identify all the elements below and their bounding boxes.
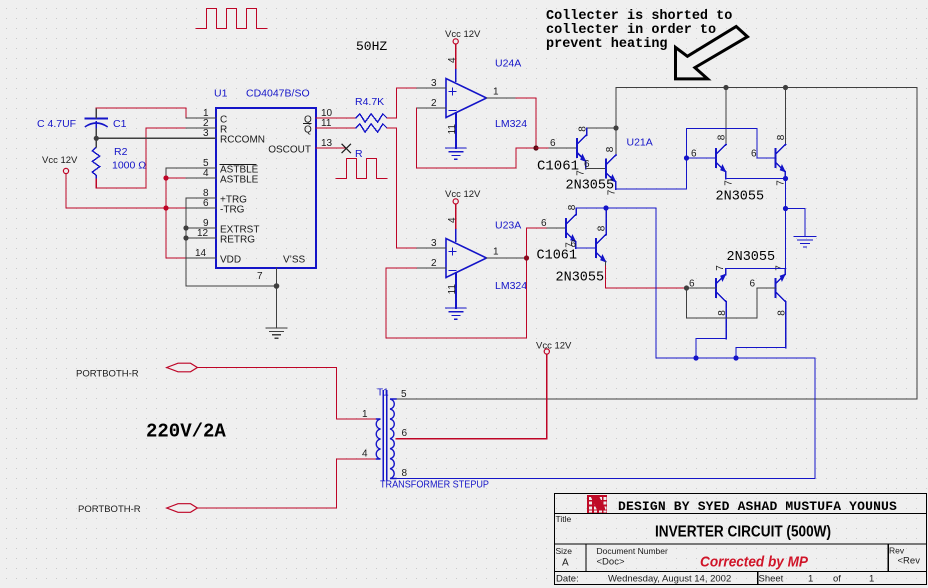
- svg-text:DESIGN BY SYED ASHAD MUSTUFA Y: DESIGN BY SYED ASHAD MUSTUFA YOUNUS: [618, 499, 897, 514]
- wire Q5/Q6 collectors: [576, 207, 656, 209]
- svg-text:2N3055: 2N3055: [716, 190, 765, 205]
- svg-text:6: 6: [402, 428, 408, 439]
- transistor Q1 (C1061): [577, 128, 587, 169]
- svg-text:4: 4: [447, 57, 458, 63]
- transformer primary winding: [376, 419, 380, 459]
- transistor Q3 (2N3055): [716, 145, 726, 179]
- svg-text:6: 6: [541, 218, 547, 229]
- wire Q3/Q4 emitters: [726, 178, 786, 180]
- svg-text:8: 8: [605, 146, 616, 152]
- svg-text:1: 1: [493, 87, 499, 98]
- wire Q7/Q8 emitters: [726, 268, 786, 270]
- title block frame: [555, 494, 927, 585]
- svg-text:A: A: [562, 558, 569, 569]
- OSCOUT waveform annotation: [336, 159, 387, 179]
- wire Q1 collector: [587, 127, 617, 129]
- junction pin9: [183, 225, 188, 230]
- ground symbol under IC: [266, 286, 287, 338]
- junction pin6 net: [163, 205, 168, 210]
- wire pin10 to resistor: [316, 117, 356, 119]
- svg-text:1000 Ω: 1000 Ω: [112, 160, 146, 172]
- svg-text:Document Number: Document Number: [597, 546, 669, 556]
- svg-text:Vcc 12V: Vcc 12V: [445, 29, 481, 40]
- wire port to transformer pin 1: [197, 368, 376, 420]
- svg-text:Vcc 12V: Vcc 12V: [445, 189, 481, 200]
- svg-text:Date:: Date:: [556, 574, 579, 585]
- svg-text:6: 6: [750, 279, 756, 290]
- junction Q8 collector bus: [733, 355, 738, 360]
- capacitor C1: [86, 118, 108, 129]
- junction emitters: [783, 176, 788, 181]
- transistor Q2 (2N3055): [606, 155, 616, 189]
- U23A pin stubs: [417, 248, 527, 268]
- wire Q7 collector to bus: [696, 339, 726, 359]
- svg-text:PORTBOTH-R: PORTBOTH-R: [76, 369, 139, 380]
- wire to ground symbol: [786, 208, 806, 210]
- wire collector bus down: [655, 208, 657, 358]
- wire Q5 emitter to Q6 base: [576, 247, 597, 249]
- svg-text:U24A: U24A: [495, 58, 521, 70]
- svg-text:Collecter is shorted to: Collecter is shorted to: [546, 9, 732, 24]
- svg-text:U21A: U21A: [627, 137, 653, 149]
- wire loop base node to Q4 base: [687, 129, 776, 159]
- wire Vcc to pin4: [455, 44, 457, 69]
- wire Q6 emitter to Q7 base node: [606, 266, 687, 288]
- no-connect X on OSCOUT: [342, 144, 351, 153]
- wire pin4 stub: [166, 177, 186, 179]
- wire rail to Q3 collector: [725, 88, 727, 145]
- logo (red crosshatch): [587, 495, 607, 513]
- svg-text:Rev: Rev: [889, 546, 905, 556]
- svg-text:Wednesday, August 14, 2002: Wednesday, August 14, 2002: [608, 574, 731, 585]
- resistor R4.7K lower (R): [356, 124, 387, 132]
- ground symbol under U23A: [446, 308, 466, 319]
- svg-text:T1: T1: [377, 388, 389, 399]
- wire collector bus to transformer pin 8: [396, 358, 815, 479]
- wire resistor to U24A pin3: [387, 88, 417, 118]
- svg-text:3: 3: [431, 78, 437, 89]
- wire R2 bottom loop to IC pin2: [96, 128, 186, 188]
- svg-text:8: 8: [567, 204, 578, 210]
- svg-text:8: 8: [578, 126, 589, 132]
- svg-text:V’SS: V’SS: [283, 255, 306, 266]
- wire Vcc to transformer pin 6: [396, 354, 547, 439]
- svg-text:prevent heating: prevent heating: [546, 37, 668, 52]
- svg-text:12: 12: [197, 228, 209, 239]
- wire resistor to U23A pin3: [387, 128, 417, 248]
- transistor Q7 (2N3055, flipped): [716, 269, 726, 339]
- resistor R2: [92, 147, 99, 179]
- svg-text:R2: R2: [114, 146, 128, 158]
- svg-text:8: 8: [717, 310, 728, 316]
- svg-text:8: 8: [776, 134, 787, 140]
- svg-text:220V/2A: 220V/2A: [146, 421, 226, 443]
- svg-text:C1: C1: [113, 118, 127, 130]
- svg-text:11: 11: [447, 124, 458, 135]
- svg-text:8: 8: [777, 310, 788, 316]
- wire rail to Q1/Q2 collectors: [615, 88, 617, 156]
- svg-text:11: 11: [447, 284, 458, 295]
- svg-text:6: 6: [571, 239, 577, 250]
- svg-text:13: 13: [321, 138, 333, 149]
- junction U24A output node: [533, 145, 538, 150]
- svg-text:<Doc>: <Doc>: [597, 557, 625, 568]
- svg-text:TRANSFORMER STEPUP: TRANSFORMER STEPUP: [380, 480, 489, 491]
- junction U23A output node: [524, 255, 529, 260]
- svg-text:INVERTER CIRCUIT (500W): INVERTER CIRCUIT (500W): [655, 524, 831, 541]
- junction VSS: [274, 283, 280, 289]
- svg-text:3: 3: [431, 238, 437, 249]
- wire pin5 elbow: [166, 168, 186, 178]
- wire pin11 to resistor: [316, 127, 356, 129]
- wire black net pin8/pin9/pin12 to VSS: [186, 198, 277, 286]
- svg-text:R4.7K: R4.7K: [355, 96, 384, 108]
- svg-text:U1: U1: [214, 88, 228, 100]
- svg-text:Size: Size: [556, 546, 573, 556]
- wire C1 top to IC pin1: [96, 108, 186, 118]
- wire Q7 base: [687, 287, 717, 289]
- svg-text:RCCOMN: RCCOMN: [220, 135, 265, 146]
- svg-text:CD4047B/SO: CD4047B/SO: [246, 88, 310, 100]
- svg-text:7: 7: [576, 170, 587, 176]
- wire Q2 emitter to Q3 base node: [616, 158, 687, 189]
- wire U23A feedback loop: [386, 228, 527, 338]
- svg-text:LM324: LM324: [495, 118, 527, 130]
- op-amp U23A: [446, 229, 487, 309]
- svg-text:Vcc 12V: Vcc 12V: [42, 155, 78, 166]
- wire Vcc to pin4: [455, 204, 457, 229]
- wire base loop to Q8: [687, 288, 776, 318]
- svg-text:Title: Title: [556, 514, 572, 524]
- junction Q5/Q6 collectors: [603, 205, 608, 210]
- svg-text:C 4.7UF: C 4.7UF: [37, 118, 76, 130]
- svg-text:-TRG: -TRG: [220, 205, 245, 216]
- collector rail (top, black): [396, 88, 917, 400]
- ground symbol (transistor emitters): [794, 209, 816, 248]
- capacitor C1 pin stubs: [95, 108, 97, 118]
- IC U1 CD4047B/SO body: [216, 108, 316, 268]
- transistor Q8 (2N3055, flipped): [776, 269, 786, 348]
- wire vertical net pin4/pin6/pin14: [166, 178, 186, 258]
- svg-text:RETRG: RETRG: [220, 235, 255, 246]
- note arrow: [676, 27, 748, 79]
- junction Q7 collector bus: [693, 355, 698, 360]
- IC left pin stubs: [186, 118, 277, 286]
- wire emitters down to ground node: [785, 179, 787, 209]
- wire Q1 emitter to Q2 base: [586, 168, 607, 170]
- svg-text:6: 6: [691, 149, 697, 160]
- clock waveform annotation (50Hz): [196, 9, 267, 29]
- wire ground node down to lower pair emitters: [785, 209, 787, 269]
- svg-text:7: 7: [724, 180, 735, 186]
- svg-text:1: 1: [869, 574, 874, 585]
- svg-text:6: 6: [203, 198, 209, 209]
- svg-text:14: 14: [195, 248, 207, 259]
- wire port to transformer pin 4: [197, 459, 376, 508]
- svg-text:U23A: U23A: [495, 220, 521, 232]
- svg-text:OSCOUT: OSCOUT: [268, 145, 311, 156]
- op-amp U24A: [446, 69, 487, 149]
- svg-text:7: 7: [257, 271, 263, 282]
- transformer T1 core: [383, 391, 387, 480]
- svg-text:collecter in order to: collecter in order to: [546, 23, 716, 38]
- svg-text:8: 8: [717, 134, 728, 140]
- U24A pin stubs: [417, 88, 517, 108]
- svg-text:ASTBLE: ASTBLE: [220, 175, 259, 186]
- svg-text:1: 1: [493, 247, 499, 258]
- wire U23A to Q5 base: [527, 227, 548, 229]
- svg-text:50HZ: 50HZ: [356, 39, 387, 54]
- wire rail to Q4 collector: [785, 88, 787, 145]
- junction ground node: [783, 206, 788, 211]
- junction rail Q3: [723, 85, 728, 90]
- transistor Q5 (C1061, lower): [566, 208, 576, 248]
- svg-text:C1061: C1061: [537, 249, 578, 264]
- wire U24A feedback loop: [417, 108, 537, 168]
- wire Vcc to pin6 net: [66, 174, 186, 208]
- svg-text:1: 1: [362, 409, 368, 420]
- svg-text:1: 1: [808, 574, 813, 585]
- svg-text:7: 7: [775, 265, 786, 271]
- svg-text:<Rev: <Rev: [898, 556, 921, 567]
- svg-text:LM324: LM324: [495, 280, 527, 292]
- svg-text:2N3055: 2N3055: [556, 271, 605, 286]
- svg-text:Q: Q: [304, 125, 312, 136]
- node junction C1/R2/pin3: [94, 136, 99, 141]
- ground symbol under U24A: [446, 148, 466, 159]
- svg-text:7: 7: [607, 189, 618, 195]
- svg-text:Vcc 12V: Vcc 12V: [536, 341, 572, 352]
- svg-text:4: 4: [203, 168, 209, 179]
- junction rail Q4: [783, 85, 788, 90]
- wire pin13 to no-connect: [316, 147, 346, 149]
- junction Q1/Q2 collector: [613, 125, 618, 130]
- svg-text:2: 2: [431, 258, 437, 269]
- transistor Q4 (2N3055): [776, 145, 786, 179]
- svg-text:VDD: VDD: [220, 255, 241, 266]
- svg-text:6: 6: [751, 149, 757, 160]
- junction pin4 net: [163, 175, 168, 180]
- svg-text:of: of: [833, 574, 841, 585]
- wire node to R2 top: [95, 138, 97, 147]
- svg-text:5: 5: [401, 389, 407, 400]
- wire Q8 collector to bus: [736, 348, 786, 359]
- svg-text:6: 6: [584, 159, 590, 170]
- svg-text:6: 6: [550, 138, 556, 149]
- wire Q6 emitter stub: [605, 262, 607, 267]
- junction Q7 base node: [684, 285, 689, 290]
- resistor R4.7K upper: [356, 114, 387, 122]
- svg-text:2N3055: 2N3055: [727, 250, 776, 265]
- svg-text:Corrected by MP: Corrected by MP: [700, 554, 809, 571]
- svg-text:8: 8: [402, 468, 408, 479]
- svg-text:7: 7: [715, 265, 726, 271]
- svg-text:4: 4: [362, 449, 368, 460]
- svg-text:2: 2: [431, 98, 437, 109]
- wire U24A output: [516, 98, 536, 148]
- svg-text:8: 8: [597, 225, 608, 231]
- junction pin12: [183, 235, 188, 240]
- svg-text:4: 4: [447, 217, 458, 223]
- svg-text:3: 3: [203, 128, 209, 139]
- junction Q3 base node: [684, 155, 689, 160]
- svg-text:Sheet: Sheet: [759, 574, 784, 585]
- wire base node to Q3: [687, 157, 717, 159]
- svg-text:11: 11: [321, 118, 332, 129]
- wire node to IC pin3: [96, 137, 216, 139]
- svg-text:PORTBOTH-R: PORTBOTH-R: [78, 504, 141, 515]
- svg-text:C1061: C1061: [537, 159, 579, 175]
- transistor Q6 (2N3055, lower): [596, 208, 606, 262]
- wire U24A to Q1 base: [536, 147, 549, 149]
- transformer secondary winding: [390, 399, 396, 479]
